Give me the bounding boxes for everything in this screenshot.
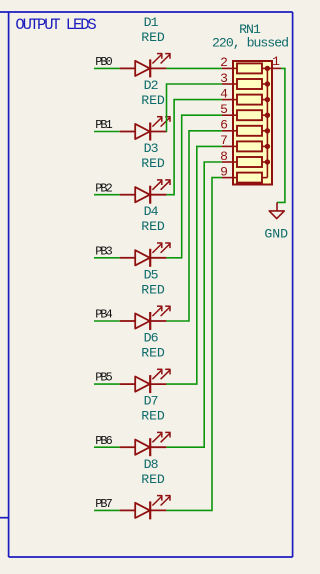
svg-text:1: 1 [272,54,280,69]
svg-text:PB3: PB3 [95,244,112,258]
svg-text:D7: D7 [144,394,158,409]
RN1 bus junction dot pin 5 [265,113,270,118]
LED D8 [120,495,171,519]
LED D1 [120,53,171,77]
wire PB6 to LED D7 [94,446,120,448]
RN1 bus junction dot pin 4 [265,97,270,102]
wire PB0 to LED D1 [94,67,120,69]
RN1 bus junction dot pin 7 [265,144,270,149]
sheet frame left line [8,12,10,557]
svg-text:OUTPUT LEDS: OUTPUT LEDS [15,16,96,34]
svg-text:7: 7 [220,133,228,148]
LED D2 [120,116,171,140]
RN1 bus junction dot pin 8 [265,159,270,164]
RN1 internal resistor 7 [237,157,262,167]
svg-text:D6: D6 [144,331,159,346]
wire PB3 to LED D4 [94,257,120,259]
svg-text:RED: RED [141,219,165,234]
RN1 internal resistor 3 [237,95,262,105]
wire LED D6 to RN1 pin 7 [166,146,222,384]
sheet frame top line [0,11,293,13]
RN1 internal resistor 6 [237,141,262,151]
svg-text:RED: RED [141,409,165,424]
svg-text:PB6: PB6 [95,434,112,448]
svg-text:3: 3 [220,71,228,86]
svg-text:GND: GND [264,226,288,241]
RN1 bus junction dot pin 6 [265,128,270,133]
RN1 pin 8 stub [222,161,237,163]
svg-text:4: 4 [220,86,228,101]
LED D3 [120,180,171,204]
RN1 pin 7 stub [222,145,237,147]
RN1 internal resistor 4 [237,110,262,120]
wire PB1 to LED D2 [94,131,120,133]
svg-text:RED: RED [141,93,165,108]
svg-text:RED: RED [141,156,165,171]
sheet frame left tick [0,517,9,519]
RN1 internal resistor 2 [237,79,262,89]
svg-text:5: 5 [220,102,228,117]
svg-text:D8: D8 [144,457,159,472]
svg-text:RED: RED [141,472,165,487]
svg-text:D4: D4 [144,204,159,219]
wire LED D4 to RN1 pin 5 [166,115,222,258]
ground symbol [269,202,284,218]
wire PB2 to LED D3 [94,194,120,196]
wire PB7 to LED D8 [94,509,120,511]
svg-text:D5: D5 [144,267,159,282]
svg-text:PB7: PB7 [95,497,112,511]
wire LED D8 to RN1 pin 9 [166,178,222,511]
svg-text:RED: RED [141,346,165,361]
sheet frame bottom line [9,556,293,558]
LED D7 [120,432,171,456]
svg-text:9: 9 [220,164,228,179]
svg-text:PB1: PB1 [95,118,112,132]
svg-text:2: 2 [220,55,228,70]
wire RN1 pin 1 to GND [277,68,285,202]
svg-text:220, bussed: 220, bussed [212,36,288,51]
LED D6 [120,369,171,393]
RN1 pin 2 stub [222,67,237,69]
wire LED D3 to RN1 pin 4 [166,100,222,195]
svg-text:8: 8 [220,149,228,164]
RN1 bus junction dot pin 2 [265,66,270,71]
svg-text:RED: RED [141,282,165,297]
svg-text:PB2: PB2 [95,181,112,195]
svg-text:6: 6 [220,118,228,133]
svg-text:D3: D3 [144,141,159,156]
RN1 internal resistor 8 [237,173,262,183]
wire PB4 to LED D5 [94,320,120,322]
resistor network RN1 body [233,61,272,185]
RN1 internal resistor 1 [237,63,262,73]
svg-text:PB4: PB4 [95,308,112,322]
wire LED D7 to RN1 pin 8 [166,162,222,447]
RN1 pin 1 stub [267,67,281,69]
RN1 internal bus [266,68,268,177]
wire LED D1 to RN1 pin 2 [166,67,222,69]
wire LED D2 to RN1 pin 3 [166,84,222,132]
LED D5 [120,306,171,330]
svg-text:RED: RED [141,30,165,45]
RN1 internal resistor 5 [237,126,262,136]
sheet frame right line [292,12,294,557]
RN1 pin 4 stub [222,99,237,101]
RN1 pin 9 stub [222,177,237,179]
RN1 pin 6 stub [222,130,237,132]
svg-text:PB0: PB0 [95,55,112,69]
wire PB5 to LED D6 [94,383,120,385]
RN1 pin 5 stub [222,114,237,116]
svg-text:D1: D1 [144,15,159,30]
RN1 pin 3 stub [222,83,237,85]
RN1 bus junction dot pin 3 [265,81,270,86]
wire LED D5 to RN1 pin 6 [166,131,222,321]
LED D4 [120,243,171,267]
svg-text:PB5: PB5 [95,371,112,385]
svg-text:D2: D2 [144,78,158,93]
